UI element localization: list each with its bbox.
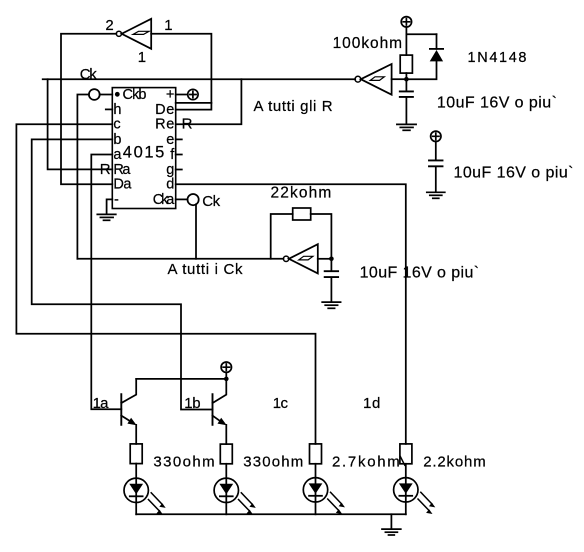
svg-text:22kohm: 22kohm [271,184,332,201]
LED D1a [124,464,166,515]
svg-text:2: 2 [105,17,113,34]
svg-text:Ckb: Ckb [123,87,147,103]
inverter U1c reset (Schmitt) [355,64,404,95]
node oscillator RC junction [329,257,334,262]
svg-text:1c: 1c [273,395,289,412]
svg-text:c: c [113,117,120,133]
svg-text:h: h [113,102,121,118]
resistor 330ohm (1b) [220,444,232,464]
pin g label [166,162,174,178]
svg-text:g: g [166,162,174,178]
label 22kohm [271,184,332,201]
label 4015 [123,144,165,162]
pin e stub [176,138,182,140]
capacitor decoupling 10uF [429,160,443,192]
label 1c [273,395,289,412]
svg-text:330ohm: 330ohm [153,453,214,470]
svg-text:Da: Da [113,177,132,193]
svg-text:f: f [170,147,175,163]
label Ck at Cka [202,193,220,210]
capacitor reset 10uF [400,79,413,124]
label Ck (top-left) [80,66,98,83]
pin + label [166,87,174,103]
label 1N4148 [468,50,527,66]
svg-text:330ohm: 330ohm [243,453,303,470]
transistor Q1b [213,379,227,444]
label pin 1 of U1a [164,17,172,34]
label 10uF 16V o piu (decoupling) [454,165,574,182]
LED D1d [394,464,436,515]
svg-text:e: e [166,132,174,148]
pin Da label [113,177,132,193]
supply + pin symbol [176,89,198,99]
wire c pin to 1c column [16,124,315,444]
label 10uF 16V o piu (reset) [437,94,557,111]
diode 1N4148 [409,34,444,79]
pin Ckb (dot + label) [115,87,147,103]
label 2.7kohm [332,453,400,470]
wire U1a input from De pin [151,34,211,110]
label 2.2kohm [423,453,486,470]
node Ck / R line (horizontal net) [43,78,356,80]
label 1d [363,395,380,412]
wire reset top node [406,34,436,55]
pin f stub [176,154,182,156]
capacitor oscillator 10uF [325,259,338,302]
label R at Re [182,116,193,133]
label 10uF 16V o piu (oscillator) [360,265,480,282]
wire b pin to 1b base column [32,139,213,409]
pin h stub [106,108,113,110]
svg-text:Ck: Ck [80,66,98,83]
wire d pin to 1d column [176,184,406,444]
svg-text:100kohm: 100kohm [333,35,403,52]
svg-text:A tutti i Ck: A tutti i Ck [168,261,244,278]
pin d label [166,177,174,193]
pin minus label [114,192,119,208]
svg-text:1: 1 [138,49,146,66]
svg-text:R: R [100,161,111,178]
transistor Q1a [121,379,136,444]
svg-text:+: + [166,87,174,103]
wire Re pin to R line [176,79,242,124]
wire collector rail [136,378,226,380]
pin Ra label [113,162,131,178]
pin h label [113,102,121,118]
label A tutti i Ck [168,261,244,278]
label 1b [184,395,200,412]
svg-text:d: d [166,177,174,193]
svg-text:b: b [113,132,121,148]
wire U1a output to Da pin [61,34,116,184]
svg-text:Re: Re [155,117,174,133]
wire De pin upper parallel segment [176,102,212,104]
label 100kohm [333,35,403,52]
pin b label [113,132,121,148]
LED D1b [214,464,256,515]
pin e label [166,132,174,148]
IC U2 4015 body [112,88,175,209]
inverter U1a (Schmitt, top-left) [116,19,151,49]
svg-text:Cka: Cka [153,192,175,208]
label A tutti gli R [254,98,333,115]
ground (oscillator cap) [322,302,340,308]
svg-text:2.2kohm: 2.2kohm [423,453,486,470]
label R at Ra [100,161,111,178]
label gate number 1 of U1a [138,49,146,66]
svg-text:a: a [113,147,122,163]
node reset junction [404,77,409,82]
label 330ohm (1a) [153,453,214,470]
svg-text:A tutti gli R: A tutti gli R [254,98,333,115]
svg-text:1d: 1d [363,395,380,412]
svg-text:De: De [155,102,174,118]
svg-text:1: 1 [164,17,172,34]
inverter U1b oscillator (Schmitt) [283,244,317,273]
resistor 100kohm [400,55,412,73]
pin minus to ground wire [107,199,113,213]
supply + (LED drivers) [221,362,231,379]
ground (decoupling cap) [427,192,445,198]
resistor 2.2kohm (1d) [400,444,412,464]
pin De label [155,102,174,118]
svg-text:1N4148: 1N4148 [468,50,527,66]
supply + (reset network top-right) [401,17,411,35]
supply + (decoupling cap) [431,131,441,159]
svg-text:Ra: Ra [113,162,131,178]
label 1a [93,395,110,412]
svg-text:10uF 16V o piu`: 10uF 16V o piu` [437,94,557,111]
LED D1c [303,464,345,515]
node collector rail junction [224,377,229,382]
resistor 22kohm [271,208,332,259]
pin a label [113,147,122,163]
svg-text:4015: 4015 [123,144,165,162]
svg-text:10uF 16V o piu`: 10uF 16V o piu` [360,265,480,282]
ground (IC Vss) [97,214,116,220]
resistor 2.7kohm (1c) [310,444,322,464]
pin c label [113,117,120,133]
svg-text:2.7kohm: 2.7kohm [332,453,400,470]
svg-text:10uF 16V o piu`: 10uF 16V o piu` [454,165,574,182]
wire Ra to Ck line [48,79,113,169]
label pin 2 of U1a [105,17,113,34]
wire oscillator input [318,258,332,260]
wire rail to ground [390,514,392,528]
resistor 330ohm (1a) [130,444,142,464]
wire a pin to 1a base [91,155,121,410]
stray backslash mark [400,457,405,466]
label 330ohm (1b) [243,453,303,470]
wire resistor to reset node [405,73,407,79]
pin f label [170,147,175,163]
pin Re label [155,117,174,133]
node A tutti i Ck line [77,258,283,260]
pin Cka clock bubble [176,194,199,259]
ground (LED rail) [382,529,401,535]
svg-text:1b: 1b [184,395,200,412]
svg-text:R: R [182,116,193,133]
ground (reset cap) [397,124,416,130]
svg-text:Ck: Ck [202,193,220,210]
svg-text:1a: 1a [93,395,110,412]
wire cathode rail [136,513,406,515]
pin Cka label [153,192,175,208]
svg-text:-: - [114,192,119,208]
pin g stub [176,169,182,171]
wire Ckb clock bubble left [77,89,112,259]
